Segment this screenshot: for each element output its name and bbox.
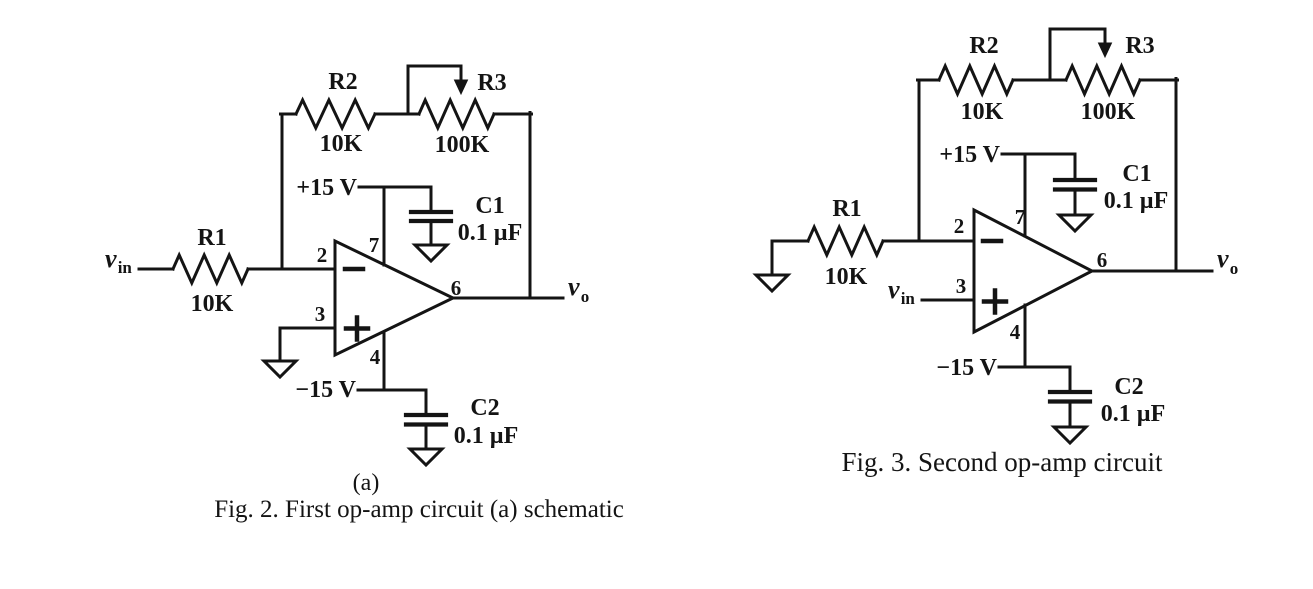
op-amp minus symbol (inverting input)	[345, 267, 363, 272]
wire C2 to ground	[425, 425, 428, 450]
wire R3 to feedback right vertical (Fig.3)	[1140, 79, 1178, 82]
value 0.1 uF of C2 (Fig.3)	[1101, 401, 1166, 427]
resistor R3 potentiometer (Fig.3)	[1066, 66, 1140, 94]
node vo label (Fig.2 output)	[568, 272, 589, 306]
pin 6 label	[451, 276, 462, 300]
pin 4 label	[370, 345, 381, 369]
svg-text:6: 6	[1097, 248, 1108, 272]
svg-text:o: o	[1230, 259, 1239, 278]
pin 6 label (Fig.3)	[1097, 248, 1108, 272]
wire pin 4 to -15V rail	[383, 333, 386, 390]
label +15 V (Fig.2)	[296, 175, 357, 201]
capacitor C2 (Fig.2)	[406, 415, 446, 425]
wire C1 to ground (Fig.3)	[1074, 190, 1077, 216]
svg-text:v: v	[105, 244, 117, 273]
svg-text:+15 V: +15 V	[939, 142, 1000, 168]
svg-text:C2: C2	[1114, 374, 1143, 400]
svg-text:in: in	[901, 289, 916, 308]
pin 3 label	[315, 302, 326, 326]
label R3	[477, 70, 506, 96]
ground symbol under C1 (Fig.3)	[1059, 215, 1091, 231]
wire output pin 6 to vo (Fig.3)	[1092, 270, 1212, 273]
ground symbol under C2 (Fig.2)	[410, 449, 442, 465]
svg-text:0.1 µF: 0.1 µF	[1104, 188, 1169, 214]
wire R2 to R3 (Fig.3)	[1013, 79, 1066, 82]
label -15 V (Fig.2)	[295, 377, 356, 403]
capacitor C2 (Fig.3)	[1050, 392, 1090, 402]
node vo label (Fig.3 output)	[1217, 244, 1238, 278]
wire top node to R2 (Fig.3)	[918, 79, 940, 82]
resistor R1 (Fig.2)	[173, 255, 248, 283]
label R2	[328, 69, 357, 95]
wire R1 to op-amp pin 2 with feedback junction	[248, 268, 335, 271]
caption (a)	[353, 470, 380, 496]
label R1	[197, 225, 226, 251]
svg-text:3: 3	[956, 274, 967, 298]
svg-text:0.1 µF: 0.1 µF	[458, 220, 523, 246]
svg-text:−15 V: −15 V	[936, 355, 997, 381]
wire pin 3 to ground	[280, 328, 335, 361]
wire -15V rail to C2 (Fig.3)	[999, 367, 1070, 392]
svg-text:100K: 100K	[435, 132, 490, 158]
wire feedback left vertical (Fig.3)	[918, 80, 921, 240]
svg-text:−15 V: −15 V	[295, 377, 356, 403]
svg-text:(a): (a)	[353, 470, 380, 496]
op-amp U2 triangle (Fig.3)	[974, 210, 1092, 332]
op-amp minus symbol (Fig.3)	[983, 239, 1001, 244]
svg-text:4: 4	[1010, 320, 1021, 344]
ground symbol at R1 (Fig.3)	[756, 275, 788, 291]
wire pin 4 to -15V rail (Fig.3)	[1024, 305, 1027, 367]
pin 4 label (Fig.3)	[1010, 320, 1021, 344]
svg-text:4: 4	[370, 345, 381, 369]
resistor R3 potentiometer (Fig.2)	[419, 100, 494, 128]
svg-text:6: 6	[451, 276, 462, 300]
svg-text:0.1 µF: 0.1 µF	[454, 423, 519, 449]
label -15 V (Fig.3)	[936, 355, 997, 381]
pin 3 label (Fig.3)	[956, 274, 967, 298]
svg-text:2: 2	[317, 243, 328, 267]
svg-text:in: in	[118, 258, 133, 277]
wire pin 7 to +15V rail (Fig.3)	[1024, 154, 1027, 236]
svg-text:o: o	[581, 287, 590, 306]
node vin label (Fig.2 input)	[105, 244, 132, 277]
ground symbol under C2 (Fig.3)	[1054, 427, 1086, 443]
label +15 V (Fig.3)	[939, 142, 1000, 168]
label R3 (Fig.3)	[1125, 33, 1154, 59]
label C2	[470, 395, 499, 421]
pin 7 label	[369, 233, 380, 257]
svg-text:100K: 100K	[1081, 99, 1136, 125]
label C1 (Fig.3)	[1122, 161, 1151, 187]
wire C2 to ground (Fig.3)	[1069, 402, 1072, 428]
svg-text:v: v	[1217, 244, 1229, 273]
label C1	[475, 193, 504, 219]
potentiometer wiper arrow of R3 (Fig.2)	[408, 66, 468, 114]
wire R2 to R3	[375, 113, 419, 116]
value 10K of R1 (Fig.3)	[825, 264, 868, 290]
svg-text:Fig. 2. First op-amp circuit (: Fig. 2. First op-amp circuit (a) schemat…	[214, 496, 624, 523]
value 10K of R2 (Fig.3)	[961, 99, 1004, 125]
ground symbol at pin 3 (Fig.2)	[264, 361, 296, 377]
wire +15V rail to C1	[359, 187, 431, 212]
pin 2 label	[317, 243, 328, 267]
op-amp plus symbol (Fig.3)	[984, 291, 1006, 313]
svg-text:R2: R2	[328, 69, 357, 95]
svg-text:C1: C1	[1122, 161, 1151, 187]
svg-text:10K: 10K	[320, 131, 363, 157]
wire vin to pin 3 (Fig.3)	[922, 299, 974, 302]
value 0.1 uF of C1	[458, 220, 523, 246]
potentiometer wiper arrow of R3 (Fig.3)	[1050, 29, 1112, 80]
value 10K of R1	[191, 291, 234, 317]
ground symbol under C1 (Fig.2)	[415, 245, 447, 261]
svg-text:R2: R2	[969, 33, 998, 59]
svg-text:10K: 10K	[191, 291, 234, 317]
wire top node to R2	[281, 113, 297, 116]
svg-text:R3: R3	[1125, 33, 1154, 59]
wire feedback right vertical to output	[529, 113, 532, 299]
caption Fig. 2	[214, 496, 624, 523]
svg-text:10K: 10K	[961, 99, 1004, 125]
capacitor C1 (Fig.2)	[411, 212, 451, 221]
label R1 (Fig.3)	[832, 196, 861, 222]
op-amp plus symbol (non-inverting input)	[346, 318, 368, 340]
resistor R1 (Fig.3)	[808, 227, 883, 255]
value 10K of R2	[320, 131, 363, 157]
svg-text:10K: 10K	[825, 264, 868, 290]
label C2 (Fig.3)	[1114, 374, 1143, 400]
wire C1 to ground	[430, 221, 433, 245]
svg-text:7: 7	[369, 233, 380, 257]
wire pin 7 to +15V rail	[383, 187, 386, 265]
wire -15V rail to C2	[358, 390, 426, 415]
svg-text:0.1 µF: 0.1 µF	[1101, 401, 1166, 427]
value 0.1 uF of C1 (Fig.3)	[1104, 188, 1169, 214]
op-amp U1 triangle (Fig.2)	[335, 241, 453, 355]
capacitor C1 (Fig.3)	[1055, 180, 1095, 190]
wire R1 ground corner (Fig.3)	[772, 241, 808, 275]
svg-text:v: v	[888, 275, 900, 304]
wire output pin 6 to vo	[453, 297, 563, 300]
value 0.1 uF of C2	[454, 423, 519, 449]
value 100K of R3	[435, 132, 490, 158]
value 100K of R3 (Fig.3)	[1081, 99, 1136, 125]
svg-text:R3: R3	[477, 70, 506, 96]
wire vin to R1	[139, 268, 173, 271]
svg-text:C1: C1	[475, 193, 504, 219]
svg-text:2: 2	[954, 214, 965, 238]
svg-text:3: 3	[315, 302, 326, 326]
wire feedback left vertical (node at R1/pin2)	[281, 114, 284, 268]
wire feedback right vertical to output (Fig.3)	[1175, 79, 1178, 272]
svg-text:R1: R1	[197, 225, 226, 251]
resistor R2 (Fig.3)	[939, 66, 1013, 94]
label R2 (Fig.3)	[969, 33, 998, 59]
wire R3 to feedback right vertical	[494, 113, 532, 116]
wire R1 to op-amp pin 2 with feedback junction (Fig.3)	[883, 240, 974, 243]
caption Fig. 3	[842, 447, 1163, 477]
svg-text:R1: R1	[832, 196, 861, 222]
resistor R2 (Fig.2)	[296, 100, 375, 128]
svg-text:Fig. 3. Second op-amp circuit: Fig. 3. Second op-amp circuit	[842, 447, 1163, 477]
svg-text:v: v	[568, 272, 580, 301]
node vin label (Fig.3 input)	[888, 275, 915, 308]
pin 2 label (Fig.3)	[954, 214, 965, 238]
svg-text:+15 V: +15 V	[296, 175, 357, 201]
wire +15V rail to C1 (Fig.3)	[1002, 154, 1075, 180]
svg-text:C2: C2	[470, 395, 499, 421]
pin 7 label (Fig.3)	[1015, 205, 1026, 229]
